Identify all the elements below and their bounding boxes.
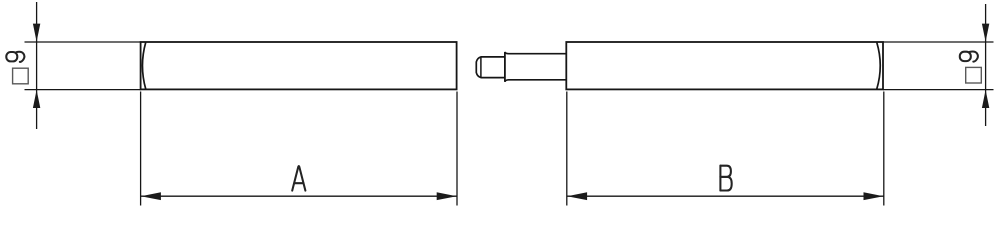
pin cylinder bottom line with shoulder [505,80,566,82]
dimension line sq9 left (vertical) [36,2,38,129]
arrowhead dim B left (points left) [567,192,587,200]
extension line dim B right (vertical) [883,92,885,206]
pin tip chamfer tangent line [480,57,482,78]
extension line top-left (dim sq9 left) [25,41,142,43]
extension line bottom-right (dim sq9 right) [883,89,994,91]
dimension line sq9 right (vertical) [985,4,987,126]
arrowhead sq9 right top (points down) [982,24,989,42]
label square symbol left [13,68,29,84]
extension line dim A right (vertical) [456,92,458,206]
pin cylinder top line with shoulder [505,52,566,54]
pin tip outline [476,57,504,78]
right square bar end chamfer arc [877,43,880,89]
arrowhead dim A left (points left) [141,192,161,200]
extension line top-right (dim sq9 right) [883,41,994,43]
right square bar outline [566,42,883,89]
label A [292,166,305,191]
arrowhead sq9 left bottom (points up) [33,90,40,108]
left square bar outline [141,42,457,89]
extension line dim B left (vertical) [566,92,568,206]
left square bar end chamfer arc [142,43,145,89]
label square symbol right [966,67,982,83]
label digit 9 left (rotated) [6,52,24,62]
arrowhead dim A right (points right) [437,192,457,200]
label digit 9 right (rotated) [960,51,978,61]
pin step face [504,52,506,82]
dimension line A [141,195,457,197]
arrowhead sq9 left top (points down) [33,24,40,42]
label B [720,166,731,191]
extension line dim A left (vertical) [140,92,142,206]
extension line bottom-left (dim sq9 left) [25,89,142,91]
arrowhead sq9 right bottom (points up) [982,90,989,108]
arrowhead dim B right (points right) [864,192,884,200]
dimension line B [567,195,884,197]
